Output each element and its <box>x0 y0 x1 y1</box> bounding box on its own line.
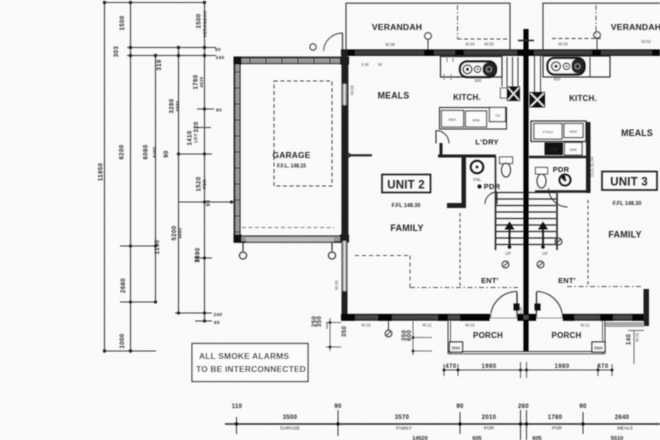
dim line v x204 <box>204 3 206 323</box>
trs box U3 <box>545 143 564 156</box>
pdr label U3 <box>553 165 570 180</box>
dim labels rotated <box>99 11 225 349</box>
wm box U3 <box>565 143 583 156</box>
hall dashed U2 <box>459 213 461 288</box>
right side dim <box>628 330 644 364</box>
smoke det hall U3 <box>537 261 544 268</box>
ceiling dash U2 b <box>409 256 411 288</box>
stove U2 <box>460 62 496 78</box>
stair wall U3 <box>556 193 558 250</box>
verandah post 1 <box>425 33 432 50</box>
dim tick y202 <box>178 201 234 203</box>
hws U3 <box>530 93 545 108</box>
garage door band <box>246 237 334 243</box>
gate door arc <box>324 33 343 51</box>
gate door leaf <box>342 33 344 51</box>
garage wall fill <box>235 58 348 243</box>
wall band top <box>341 50 660 56</box>
front door U2 leaf <box>516 292 518 317</box>
B50 box U3 <box>592 342 605 352</box>
stair treads U2 <box>496 193 523 245</box>
front wall band <box>341 314 644 320</box>
dim tick y302 <box>120 301 156 303</box>
front wall solid segs <box>341 314 644 321</box>
front door U3 leaf <box>536 292 538 317</box>
dim line v x104 <box>104 3 106 352</box>
stair wall U2 <box>495 157 497 250</box>
second tier numbers <box>412 436 623 440</box>
roof dashed U3 <box>552 38 601 40</box>
porch bottom edge <box>448 351 605 353</box>
door openings front <box>490 313 517 321</box>
garage door post L <box>239 242 246 259</box>
front door U2 arc <box>491 292 518 318</box>
ceiling dash U2 a <box>355 255 410 257</box>
smoke det hall U2 <box>502 261 509 268</box>
pdr door arc U2 <box>485 192 497 204</box>
meals stub wall <box>347 153 373 157</box>
dim tick y55.5 <box>127 55 216 57</box>
porch right edge <box>602 321 604 354</box>
basin U3 <box>559 174 570 185</box>
ceiling dash U3 <box>567 286 643 288</box>
gate post <box>310 44 316 50</box>
dim line v x155 <box>155 56 157 303</box>
hws U2 <box>508 87 520 101</box>
bench strip U3 <box>535 56 591 93</box>
ldry door arc U2 <box>436 131 449 144</box>
dim tick y258 <box>196 257 212 259</box>
bench U3 <box>543 56 610 77</box>
wc U2 <box>500 157 513 177</box>
garage door dashed head <box>242 227 334 229</box>
dim dots <box>103 1 233 353</box>
dim line v x178 <box>178 48 180 314</box>
pdr walls U3 <box>529 156 590 159</box>
dim tick y313 <box>175 312 212 314</box>
pdr label U2 <box>478 182 501 191</box>
tr box U2 <box>490 108 506 122</box>
wc U3 <box>536 168 548 189</box>
verandah U3 outline <box>543 3 660 50</box>
porch left edge <box>447 321 449 354</box>
unit2 box <box>382 175 431 193</box>
stair arrow U3 <box>538 222 548 257</box>
cab outline U3 <box>531 121 586 142</box>
garage corner posts <box>234 57 350 243</box>
verandah U2 outline <box>346 3 510 50</box>
porch step right band <box>604 322 644 327</box>
ref box U3 <box>564 124 583 138</box>
roof dashed U2 <box>458 38 511 40</box>
window W.09 left <box>342 84 346 105</box>
garage wall studs <box>235 58 331 233</box>
pdr north wall U2 <box>438 155 496 158</box>
dim tick y246 <box>120 245 156 247</box>
hall nib U2 <box>447 203 466 208</box>
garage inner wall <box>240 64 342 237</box>
left wall <box>342 50 348 321</box>
hall dashed U3 <box>587 200 589 286</box>
ldry west wall U2 <box>440 143 443 157</box>
front door U2 hinge <box>514 304 520 311</box>
roof dashdot U2 <box>457 5 459 39</box>
ref box U2 <box>442 111 464 128</box>
stove U3 <box>548 58 585 75</box>
dim tick y127 <box>195 127 211 129</box>
dim tick y321 <box>195 320 212 322</box>
ptry box U3 <box>534 124 562 140</box>
stair treads U3 <box>529 193 556 245</box>
front door U3 hinge <box>535 304 541 311</box>
ceiling dash U2 c <box>410 287 518 289</box>
dim tick y109 <box>197 108 214 110</box>
smoke det family U2 <box>385 321 392 337</box>
B50 box U2 <box>450 342 463 352</box>
wm box U2 <box>466 111 487 127</box>
bench U2 <box>441 57 503 78</box>
basin U2 <box>471 161 484 182</box>
garage door post R <box>328 242 335 259</box>
pdr door arc U3 <box>549 188 568 207</box>
window W.06 left <box>342 241 346 291</box>
dim tick y154 <box>178 153 212 155</box>
bench strip U2 <box>501 57 519 98</box>
verandah post 2 <box>594 32 601 50</box>
party wall <box>523 29 528 352</box>
front door U3 arc <box>537 292 563 318</box>
garage upper floor dashed outline <box>274 81 332 186</box>
ldry cab outline U2 <box>440 108 507 130</box>
party wall top tick <box>518 40 534 42</box>
dim tick top y3 <box>104 2 205 4</box>
dim tick bottom y351 <box>104 350 156 352</box>
garage outer wall <box>235 58 348 243</box>
dim line v x130 <box>130 3 132 352</box>
dim tick y47.5 <box>127 47 216 49</box>
roof dashdot U3 <box>595 5 597 38</box>
hall wall U2 <box>462 155 467 207</box>
unit3 right wall stub <box>644 289 650 326</box>
stair arrow U2 <box>505 222 515 257</box>
unit3 box <box>602 172 657 191</box>
smoke det family U3 <box>555 238 562 245</box>
